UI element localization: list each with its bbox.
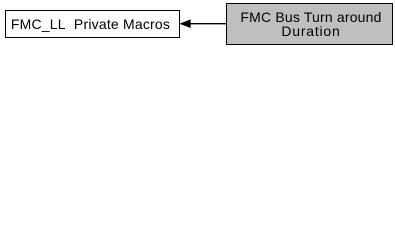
- arrow (edge from right node to left node): [0, 0, 395, 51]
- node FMC Bus Turn around Duration: [226, 3, 393, 45]
- arrowhead: [181, 20, 191, 27]
- wire: edge shaft: [190, 23, 227, 25]
- node FMC_LL Private Macros: [5, 10, 180, 38]
